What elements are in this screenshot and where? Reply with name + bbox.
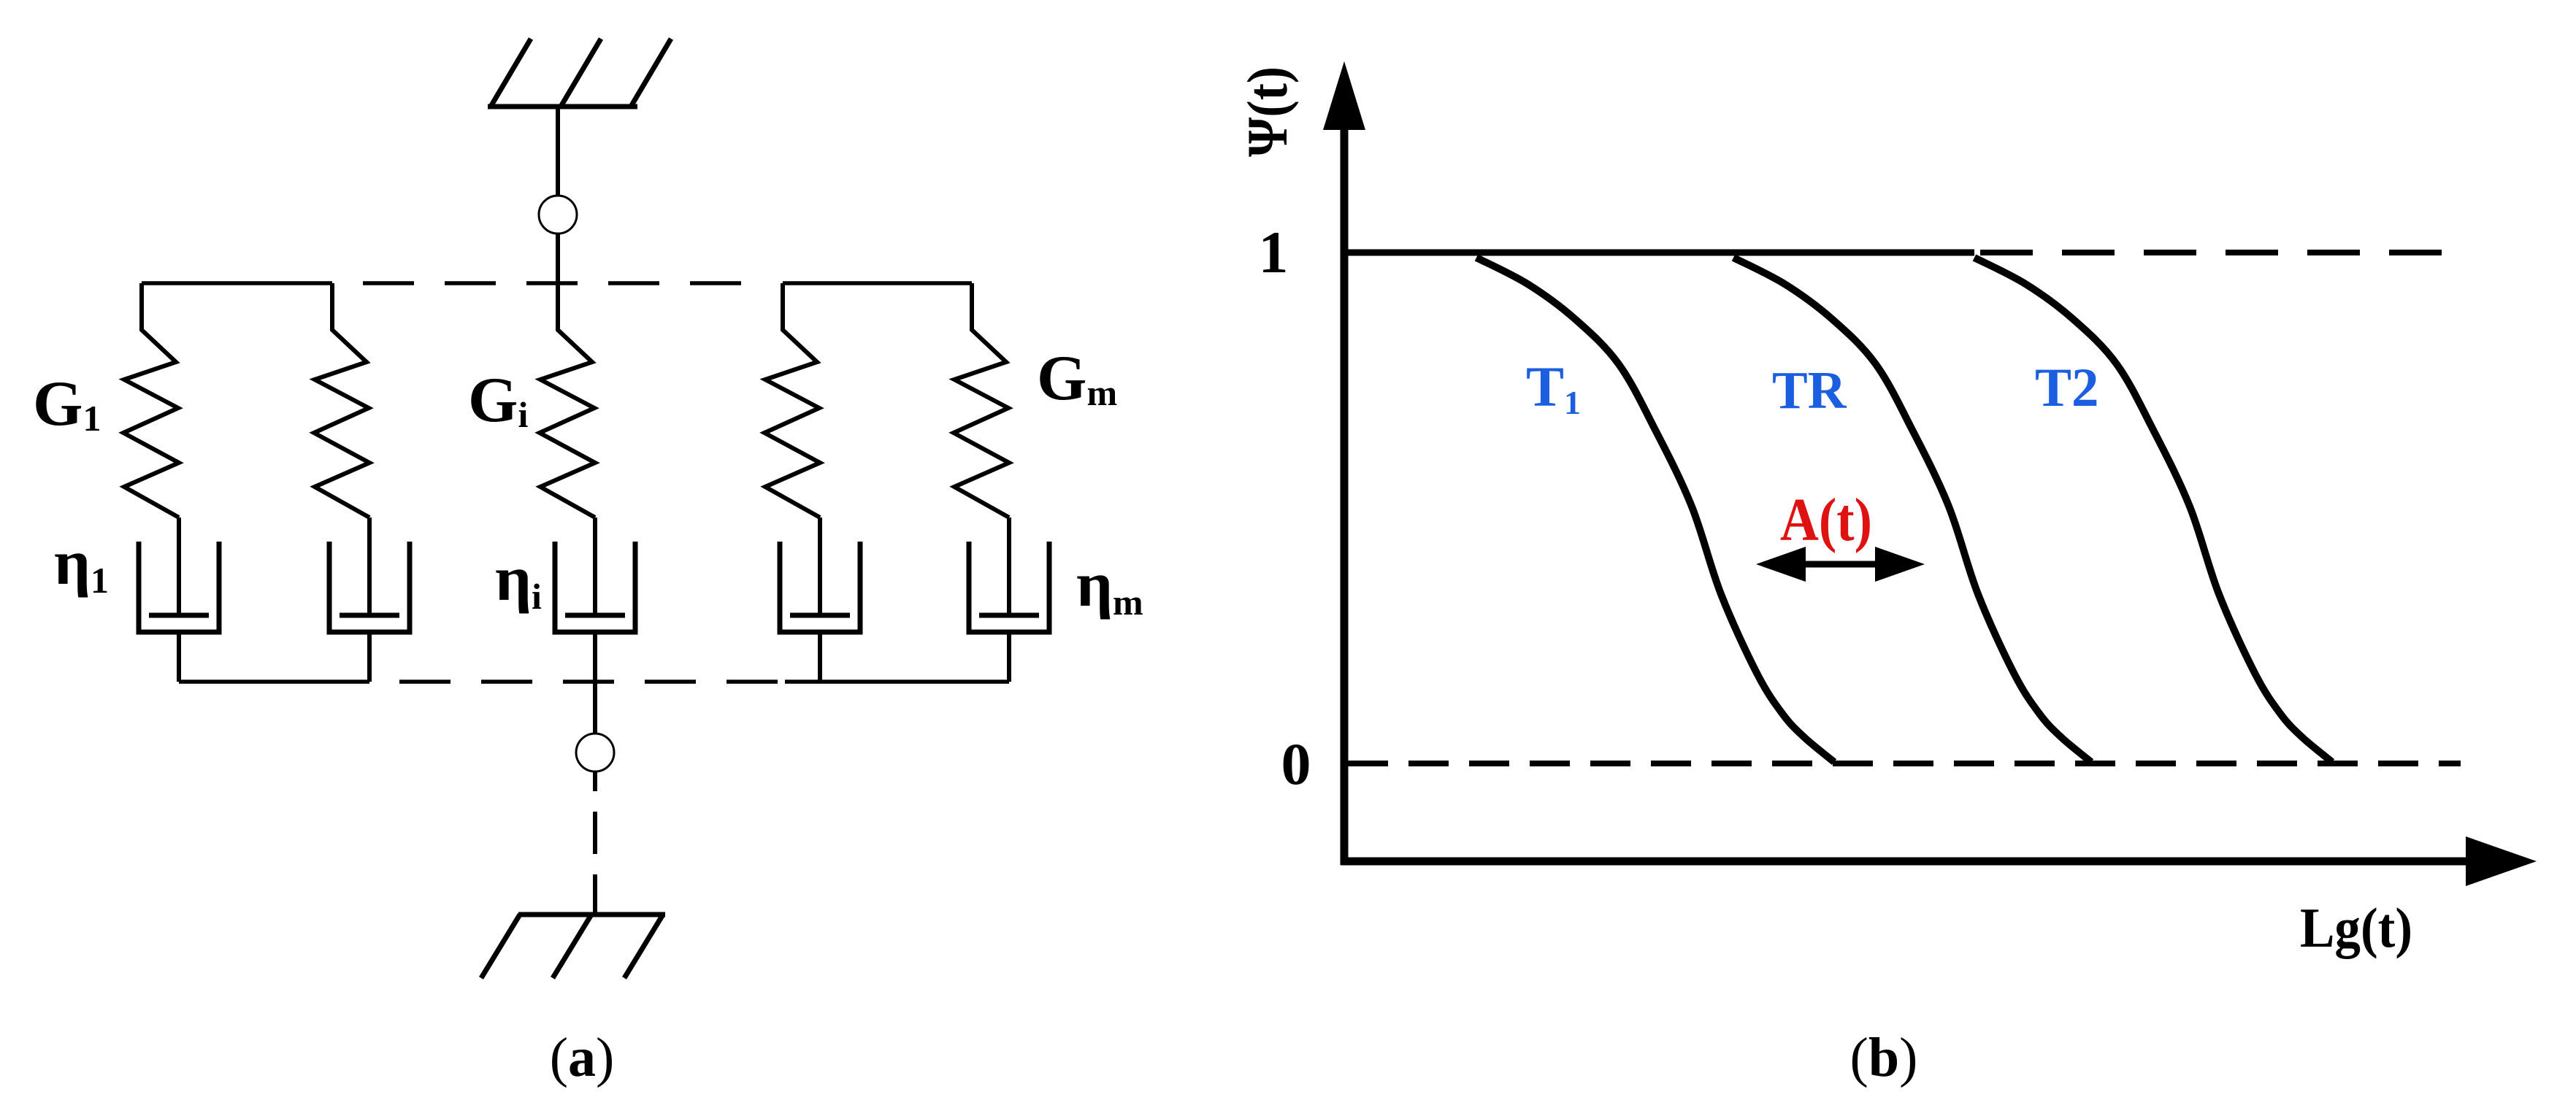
svg-text:T2: T2 — [2035, 358, 2099, 418]
svg-text:Lg(t): Lg(t) — [2300, 896, 2412, 959]
svg-text:1: 1 — [1259, 219, 1289, 285]
svg-text:Ψ(t): Ψ(t) — [1235, 66, 1299, 157]
svg-text:0: 0 — [1281, 731, 1311, 797]
svg-text:(a): (a) — [550, 1027, 615, 1088]
svg-text:(b): (b) — [1850, 1027, 1918, 1088]
svg-text:TR: TR — [1772, 361, 1847, 420]
svg-text:A(t): A(t) — [1780, 486, 1872, 554]
